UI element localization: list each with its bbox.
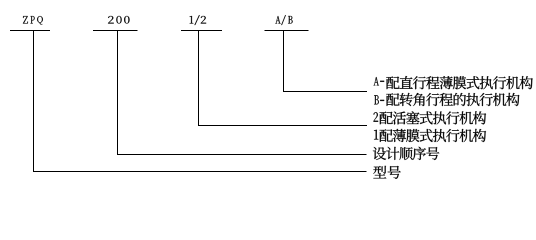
wire horizontal 1/2 to text	[198, 125, 367, 126]
text row 2 piston actuator	[374, 111, 487, 124]
label 1/2 (actuator code)	[190, 15, 207, 25]
text row design serial number	[373, 147, 439, 160]
text row A- straight-travel diaphragm actuator	[374, 76, 533, 89]
wire horizontal A/B to text	[283, 91, 367, 92]
label A/B (travel code)	[275, 15, 292, 25]
tick line under A/B	[265, 30, 309, 31]
label 200 (design serial)	[108, 16, 129, 24]
wire horizontal 200 to text	[117, 154, 367, 155]
wire vertical from ZPQ	[33, 30, 34, 172]
tick line under ZPQ	[10, 30, 50, 31]
tick line under 1/2	[181, 30, 222, 31]
text row model	[373, 166, 400, 179]
wire vertical from 1/2	[198, 30, 199, 126]
wire horizontal ZPQ to text	[33, 171, 367, 172]
label ZPQ (model code)	[23, 16, 43, 24]
wire vertical from 200	[117, 30, 118, 155]
wire vertical from A/B	[283, 30, 284, 92]
text row B- angular-travel actuator	[374, 93, 519, 106]
text row 1 diaphragm actuator	[374, 129, 486, 142]
tick line under 200	[93, 30, 137, 31]
